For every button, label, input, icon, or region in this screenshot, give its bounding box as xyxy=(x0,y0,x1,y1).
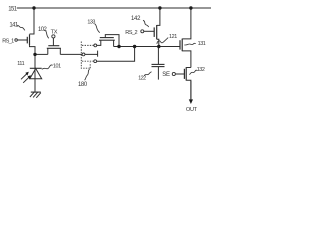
svg-text:121: 121 xyxy=(169,34,177,40)
svg-text:101: 101 xyxy=(53,63,61,69)
svg-text:102: 102 xyxy=(38,27,47,33)
svg-text:133: 133 xyxy=(87,19,95,25)
svg-text:151: 151 xyxy=(8,6,17,12)
svg-text:132: 132 xyxy=(197,67,205,73)
svg-text:122: 122 xyxy=(138,76,146,82)
svg-text:TX: TX xyxy=(51,29,58,35)
svg-text:111: 111 xyxy=(17,61,24,67)
svg-text:RS_1: RS_1 xyxy=(2,38,14,44)
svg-text:RS_2: RS_2 xyxy=(125,30,137,36)
svg-text:SE: SE xyxy=(162,72,170,78)
svg-text:131: 131 xyxy=(198,41,206,47)
svg-text:OUT: OUT xyxy=(186,107,198,113)
svg-text:141: 141 xyxy=(9,22,18,28)
svg-text:180: 180 xyxy=(78,82,88,88)
svg-text:142: 142 xyxy=(131,16,141,22)
